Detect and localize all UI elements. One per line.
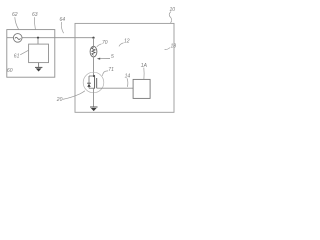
ground (90, 106, 98, 108)
wire (93, 57, 95, 76)
svg-text:20: 20 (56, 97, 63, 103)
AC source E (13, 34, 22, 43)
wire (93, 38, 95, 47)
wire (source to ground) (93, 88, 95, 107)
transistor 20 (MOSFET with body diode in circle) (83, 72, 104, 93)
node (corner junction dot) (92, 37, 94, 39)
wire (AC source to node and into device box) (7, 37, 94, 39)
svg-text:14: 14 (125, 73, 131, 79)
box 60 (test circuit) (7, 30, 55, 78)
svg-text:61: 61 (14, 54, 20, 60)
transistor gate bar (96, 78, 98, 88)
svg-text:5: 5 (111, 54, 114, 60)
svg-text:64: 64 (60, 17, 66, 23)
transistor channel bar (94, 76, 96, 89)
diode (body diode) (88, 76, 90, 83)
svg-text:70: 70 (102, 40, 108, 46)
resistor 61 (box) (29, 44, 49, 63)
node (drain dot) (93, 75, 95, 77)
internal circuit box 1A (133, 79, 150, 98)
svg-text:1A: 1A (141, 63, 148, 69)
ground (35, 66, 42, 68)
wire (38, 63, 40, 68)
svg-text:60: 60 (7, 68, 13, 74)
svg-text:18: 18 (171, 43, 177, 49)
protection element 70 (oval with zigzag) (90, 46, 97, 57)
svg-text:71: 71 (108, 67, 114, 73)
svg-text:12: 12 (124, 39, 130, 45)
semiconductor device box 10 (75, 23, 174, 112)
node (junction dot) (37, 37, 39, 39)
wire (37, 38, 39, 44)
wire (gate line to 1A) (97, 87, 133, 89)
wire (source rail) (89, 87, 95, 89)
wire (drain rail) (89, 75, 95, 77)
